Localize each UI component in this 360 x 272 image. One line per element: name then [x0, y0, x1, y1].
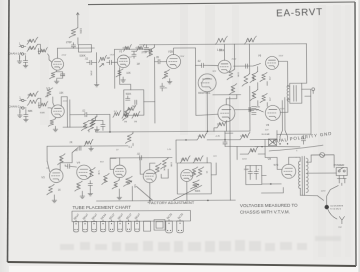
wire grid bus upper 6V6: [234, 64, 261, 69]
ground below volume node: [94, 82, 99, 86]
resistor R32 500K: [58, 154, 66, 165]
capacitor C3 cathode bypass: [57, 72, 65, 79]
svg-text:1.2V: 1.2V: [128, 57, 133, 59]
resistor R15 100K: [229, 84, 237, 95]
svg-text:470K: 470K: [135, 48, 141, 50]
tube V2B reverb driver: [167, 54, 181, 68]
wire splitter cathode down: [206, 92, 208, 131]
svg-text:V4: V4: [77, 161, 81, 165]
svg-text:20-20MF: 20-20MF: [261, 134, 270, 136]
socket V11 in chart: [177, 219, 183, 233]
junction y140 a: [185, 139, 186, 140]
socket V10 in chart: [166, 219, 172, 233]
label vib foot sw: [330, 205, 344, 210]
resistor R43 47K osc: [190, 167, 197, 177]
wire splitter feed vertical: [194, 48, 196, 65]
wire trem top line: [110, 157, 172, 159]
label factory adjustment: [147, 200, 194, 205]
label tube placement chart: [72, 205, 131, 210]
wire V5C cathode to bus: [225, 122, 227, 131]
potentiometer P1 bias adj: [123, 176, 135, 188]
resistor R6 470K on second rail: [135, 44, 144, 51]
title EA-5RVT: [276, 7, 323, 20]
wire y95 node: [213, 94, 241, 96]
wire V5A plate to rail: [223, 44, 225, 60]
resistor R18 220K bias lower: [250, 90, 258, 101]
label 100K plate: [219, 50, 225, 52]
svg-text:TIP: TIP: [338, 227, 342, 229]
tube V5C triode lower: [218, 105, 235, 122]
capacitor C2 270P: [66, 41, 76, 48]
wire pointer swoosh: [269, 145, 323, 151]
wire PT bottom to ground: [300, 188, 323, 200]
svg-text:CHAN-1: CHAN-1: [8, 51, 20, 55]
svg-text:1M: 1M: [124, 121, 127, 123]
wire x265 vert: [258, 139, 265, 154]
ground below V4B: [117, 189, 122, 200]
wire V5 cathode: [186, 181, 188, 193]
capacitor C16 series: [65, 164, 77, 168]
wire V3 grid: [47, 161, 50, 172]
svg-text:270P: 270P: [141, 51, 147, 54]
resistor R10 in box: [126, 105, 136, 112]
capacitor C1 input bypass: [23, 55, 27, 62]
wire V2B plate up: [173, 48, 195, 55]
svg-text:117V: 117V: [321, 191, 326, 193]
wire V7 plate to OT: [280, 99, 290, 112]
switch S2 polarity: [269, 139, 277, 146]
svg-text:50K: 50K: [163, 167, 165, 171]
junction polarity line: [261, 146, 262, 147]
wire volume label 1M: [107, 58, 110, 60]
capacitor C4 0.02 coupling: [85, 57, 97, 64]
jack J2 pin 2 label: [19, 56, 21, 59]
svg-text:500K: 500K: [126, 94, 132, 96]
resistor R25 470K chan2 grid: [90, 115, 97, 127]
svg-text:10K: 10K: [250, 149, 255, 152]
wire rails join: [131, 49, 151, 51]
svg-text:10K: 10K: [194, 159, 199, 161]
resistor R1 68K: [27, 37, 38, 44]
svg-text:220K: 220K: [252, 93, 254, 98]
wire to V1B grid chan2: [38, 98, 41, 105]
svg-text:100K: 100K: [240, 136, 246, 138]
tube V5A triode: [218, 60, 231, 73]
wire bias chain: [257, 67, 259, 107]
grommet vibrato foot jack: [324, 186, 338, 210]
svg-text:CHASSIS WITH V.T.V.M.: CHASSIS WITH V.T.V.M.: [240, 209, 290, 214]
resistor R14 220K: [227, 69, 238, 80]
svg-text:270P: 270P: [66, 41, 72, 44]
node CHAN-1 input label: [8, 51, 20, 55]
wire B+ rail: [139, 44, 306, 45]
junction mid bus 2: [207, 131, 209, 133]
resistor R40 100K: [161, 158, 172, 170]
wire node y140: [176, 138, 277, 141]
svg-text:1.5A: 1.5A: [246, 38, 252, 42]
resistor R2 100K: [27, 44, 38, 51]
wire V6 plate to OT: [279, 61, 290, 86]
capacitor C18 .02 top: [75, 146, 81, 152]
wire long vertical node: [248, 44, 251, 131]
resistor R19 470 screen upper: [260, 72, 270, 81]
svg-text:215V: 215V: [180, 56, 185, 58]
wire PT secondary top: [296, 157, 300, 161]
junction polarity B: [287, 143, 288, 144]
tube V4B triode: [113, 165, 126, 178]
svg-text:5.0K: 5.0K: [97, 170, 99, 175]
box coupling network: [124, 90, 144, 116]
wire OT secondary to speaker jack: [302, 89, 311, 96]
wire box top to grid bus: [120, 67, 131, 90]
box tube placement chart: [72, 210, 191, 221]
wire V8 plate leads: [265, 154, 296, 170]
ground below C1: [23, 62, 28, 68]
resistor R5 470K on second rail: [122, 44, 131, 51]
resistor R3 value label: [79, 28, 82, 34]
svg-text:225V: 225V: [63, 101, 68, 103]
wire R39 R40 bottom: [161, 169, 168, 178]
capacitor C9 grid series: [155, 56, 167, 64]
svg-text:470K: 470K: [90, 71, 92, 77]
box tone filter: [78, 45, 91, 53]
junction polarity A: [279, 143, 280, 144]
svg-text:220K: 220K: [252, 75, 254, 80]
wire R14 top to rail: [233, 44, 235, 69]
wire chan2 plate out: [61, 97, 89, 128]
jack J4 pin 1 label: [19, 96, 21, 99]
capacitor C10 0.02 splitter grid: [196, 60, 219, 68]
tube designator V1: [46, 87, 50, 91]
fuse F1: [311, 152, 334, 167]
resistor R4 1.5K cathode: [49, 70, 56, 79]
wire top node horizontal: [57, 47, 94, 49]
resistor R41 10K osc: [180, 156, 190, 163]
resistor R30 to ground: [125, 132, 133, 149]
resistor R36 1M top: [84, 139, 93, 146]
ground below V3: [52, 195, 57, 203]
wire line cord: [339, 176, 344, 179]
ground below R13: [167, 79, 172, 84]
wire heater lead B: [285, 97, 288, 140]
labels tube names in chart: [73, 212, 185, 221]
wire rectifier bottom: [261, 187, 283, 193]
socket V9 rectifier: [144, 221, 151, 231]
svg-text:1.4V: 1.4V: [167, 149, 172, 151]
labels measured voltages: [46, 53, 299, 172]
label V4: [77, 161, 81, 165]
resistor R4 value label: [60, 74, 65, 77]
wire V5C plate: [226, 95, 237, 105]
svg-text:CHAN-2: CHAN-2: [8, 104, 20, 108]
resistor R3 100K 2W plate load: [69, 13, 79, 45]
ground below C12: [23, 116, 28, 122]
ground below R4: [54, 79, 59, 84]
svg-text:68K: 68K: [27, 39, 32, 43]
plug phone tip: [328, 209, 345, 224]
transformer T2 power: [298, 156, 308, 195]
resistor R33 1K cathode V3: [47, 184, 61, 195]
wire mid bus: [96, 130, 250, 133]
potentiometer P2 speed: [190, 180, 200, 193]
resistor R44 1K osc: [196, 167, 207, 177]
label 6V6 lower: [266, 123, 270, 127]
resistor R45 1M on y140: [197, 133, 207, 140]
capacitor C5b divider: [132, 51, 136, 58]
svg-text:315V: 315V: [279, 55, 284, 57]
svg-text:EA-5RVT: EA-5RVT: [276, 7, 323, 20]
resistor R16 220K right: [242, 74, 254, 87]
svg-text:100K: 100K: [103, 177, 105, 182]
label 500K below box: [79, 53, 85, 57]
switch S1 power: [336, 167, 347, 175]
svg-text:250V: 250V: [232, 59, 237, 61]
jack J3 speaker output: [312, 88, 315, 94]
resistor R22b 500K series: [39, 101, 52, 114]
capacitor C19 .02 trem: [137, 153, 142, 160]
wire filter cluster top: [89, 116, 103, 120]
capacitor C17 bypass V4: [88, 181, 92, 190]
socket V4 in chart: [100, 220, 105, 232]
svg-text:500K: 500K: [39, 51, 45, 53]
svg-text:68K: 68K: [28, 109, 33, 113]
svg-text:500K: 500K: [59, 157, 61, 162]
svg-text:10K: 10K: [181, 159, 186, 161]
capacitor C7 in box: [126, 96, 130, 100]
resistor R35 5K right of V4: [88, 167, 99, 178]
ground below R7: [121, 77, 126, 82]
label voltages note line 2: [240, 209, 290, 214]
wire joining R1 R2 to V1 grid: [38, 44, 41, 51]
svg-text:500K: 500K: [40, 112, 46, 114]
svg-text:100K: 100K: [231, 87, 233, 92]
svg-text:100K: 100K: [46, 92, 48, 98]
wire x110 down: [109, 114, 111, 131]
wire ground bus: [96, 199, 235, 202]
resistor R39 50K: [154, 163, 165, 174]
wire x176 down to osc box: [175, 140, 177, 163]
svg-text:10K: 10K: [126, 72, 131, 75]
tube V4 triode: [77, 165, 91, 179]
tube V1B triode: [51, 105, 64, 118]
svg-text:50K: 50K: [133, 184, 135, 188]
tube V7 6V6 lower: [265, 105, 280, 120]
resistor R24 1.5K cathode chan2: [48, 118, 55, 127]
wire filter to rectifier: [262, 175, 282, 184]
resistor R13 1.5K cathode: [162, 70, 169, 80]
label tip: [338, 227, 342, 229]
resistor R28 filter: [81, 121, 89, 131]
svg-text:2K: 2K: [70, 141, 73, 144]
capacitor C5a series: [107, 60, 118, 64]
label 470K near volume: [90, 71, 92, 77]
svg-text:1.5K: 1.5K: [163, 74, 165, 79]
socket V1 in chart: [73, 220, 78, 232]
svg-text:1M: 1M: [198, 136, 201, 138]
wire x237 down: [236, 146, 238, 159]
tube V1A triode: [52, 58, 64, 70]
label 6V6 upper: [258, 53, 262, 57]
resistor R22 68K: [27, 98, 38, 113]
jack J1 tip contact: [19, 45, 26, 48]
socket V5 in chart: [109, 220, 114, 232]
resistor R34 470 cathode V4: [75, 181, 83, 191]
jack J4 tip contact: [19, 99, 26, 102]
resistor R8 1.5K on rail: [215, 36, 227, 51]
label 1M mid: [137, 64, 140, 66]
label power switch: [334, 163, 345, 167]
wire heater lead A: [280, 100, 283, 140]
svg-text:100K: 100K: [170, 162, 172, 167]
svg-text:220K: 220K: [236, 72, 238, 77]
resistor R7 10K cathode V2A: [116, 69, 131, 77]
svg-text:V2B: V2B: [168, 50, 173, 54]
jack J1 pin 1 label: [19, 42, 21, 45]
wire osc right edge: [211, 163, 216, 175]
svg-text:10K: 10K: [59, 92, 64, 95]
box vibrato oscillator: [177, 163, 211, 194]
resistor R21 68K: [27, 91, 38, 98]
wire PT primary to switch: [308, 155, 337, 173]
tube V6 6V6 upper: [266, 56, 279, 69]
wire bus tap down: [132, 143, 134, 145]
wire stub y133: [225, 131, 233, 140]
tube V4C triode: [143, 170, 156, 183]
plug AC 117V: [321, 178, 347, 192]
capacitor C21 filter: [254, 166, 260, 180]
label 20-20MF: [261, 134, 270, 136]
wire node x155 vertical: [154, 57, 156, 123]
wire node y146: [225, 146, 300, 147]
tube V8 rectifier: [282, 164, 296, 178]
socket V2 in chart: [82, 220, 87, 232]
svg-text:22K: 22K: [217, 123, 222, 126]
ground below R24: [53, 126, 58, 131]
capacitor C22 polarity cap: [301, 135, 305, 144]
wire P1 to bus: [131, 186, 133, 200]
resistor R27 mix: [123, 108, 130, 120]
box filter caps: [246, 166, 262, 185]
capacitor C20 filter: [244, 166, 253, 180]
socket V6 in chart: [117, 220, 122, 232]
wire lower feed line: [47, 145, 128, 147]
wire long node x230: [229, 97, 232, 200]
capacitor C14 filter: [101, 120, 105, 130]
wire V4B plate up: [119, 158, 121, 165]
svg-text:325V: 325V: [242, 159, 247, 161]
wire filter cluster bottom: [89, 131, 96, 133]
junction mid bus 1: [109, 131, 111, 133]
label V8: [268, 157, 272, 161]
svg-text:20MF: 20MF: [244, 169, 250, 171]
resistor R20 470 screen lower: [260, 93, 270, 102]
svg-text:500K: 500K: [124, 112, 126, 117]
ground below R25: [95, 126, 100, 131]
wire V4C grid: [140, 158, 143, 175]
svg-text:1M: 1M: [134, 121, 137, 123]
svg-text:1M: 1M: [107, 58, 110, 60]
capacitor C11 2-20MF: [250, 107, 261, 115]
svg-text:#10 GN WHITE: #10 GN WHITE: [330, 205, 344, 207]
resistor R17 220K bias upper: [250, 72, 258, 83]
capacitor C13 coupling chan2: [82, 110, 87, 117]
resistor R12 100K plate: [147, 45, 155, 58]
wire grid bus lower 6V6: [235, 107, 264, 112]
resistor R42 10K osc: [193, 156, 203, 163]
wire V3 V4 coupling: [60, 148, 78, 170]
svg-text:68K: 68K: [28, 93, 33, 97]
capacitor C8b 25MF decoupling: [160, 83, 168, 91]
resistor R2b 500K series: [38, 47, 52, 62]
node CHAN-2 input label: [8, 104, 20, 108]
socket square transformer in chart: [154, 220, 165, 231]
svg-text:TO #4 GN. G: TO #4 GN. G: [330, 208, 342, 210]
resistor R26 level: [113, 111, 121, 118]
tube V3 triode: [49, 169, 63, 183]
label V3: [41, 175, 45, 179]
svg-text:225V: 225V: [62, 55, 67, 57]
label V2B: [168, 50, 173, 54]
svg-text:POWER: POWER: [334, 163, 345, 167]
wire V4B grid: [110, 158, 116, 169]
svg-text:5Y3: 5Y3: [274, 163, 279, 167]
resistor R31 22K: [214, 121, 227, 132]
svg-text:100K: 100K: [27, 46, 33, 50]
junction y140 b: [224, 139, 225, 140]
wire x277 stub: [276, 130, 278, 139]
capacitor C6 270P on rail: [141, 45, 148, 54]
label 5Y3: [274, 163, 279, 167]
potentiometer P3 volume chan1: [99, 55, 107, 67]
label dual polarity gnd: [272, 131, 332, 144]
tube V5B phase splitter: [198, 74, 216, 92]
svg-text:1K: 1K: [58, 189, 61, 192]
transformer T1 output: [287, 83, 302, 103]
wire V1A plate to top node: [56, 48, 58, 58]
label V2A: [119, 50, 123, 54]
svg-text:TUBE PLACEMENT CHART: TUBE PLACEMENT CHART: [72, 205, 131, 210]
svg-text:315V: 315V: [280, 108, 285, 110]
junction ground bus 2: [207, 200, 209, 202]
svg-text:4.7K: 4.7K: [216, 136, 221, 138]
jack J2 tip contact: [19, 52, 26, 55]
svg-text:VOLTAGES MEASURED TO: VOLTAGES MEASURED TO: [240, 203, 298, 208]
resistor R11 below box: [122, 111, 140, 123]
ground below jack J5: [17, 109, 22, 117]
wire volume node vertical: [95, 53, 97, 83]
svg-text:1M: 1M: [137, 64, 140, 66]
wire V4C cathode: [149, 183, 151, 201]
svg-text:470K: 470K: [122, 48, 128, 50]
svg-text:500K: 500K: [195, 191, 201, 193]
svg-text:V3: V3: [41, 175, 45, 179]
junction ground bus 1: [149, 200, 151, 202]
wire splitter feed lower: [196, 65, 219, 115]
wire pointer to P2: [173, 185, 202, 200]
wire grid drop V3: [46, 146, 48, 161]
svg-text:MOD/TROL: MOD/TROL: [198, 93, 211, 95]
tube V2A triode: [117, 55, 130, 68]
resistor R45b 100K on y140: [240, 132, 250, 139]
resistor R23 100K plate chan2: [46, 88, 55, 107]
capacitor C8 in box: [131, 100, 136, 108]
wire V4C plate: [150, 163, 156, 170]
capacitor C15: [223, 140, 227, 147]
label voltages note line 1: [240, 203, 298, 208]
svg-text:1M: 1M: [85, 143, 88, 145]
wire box to node: [144, 101, 155, 103]
svg-text:170V: 170V: [110, 54, 115, 56]
